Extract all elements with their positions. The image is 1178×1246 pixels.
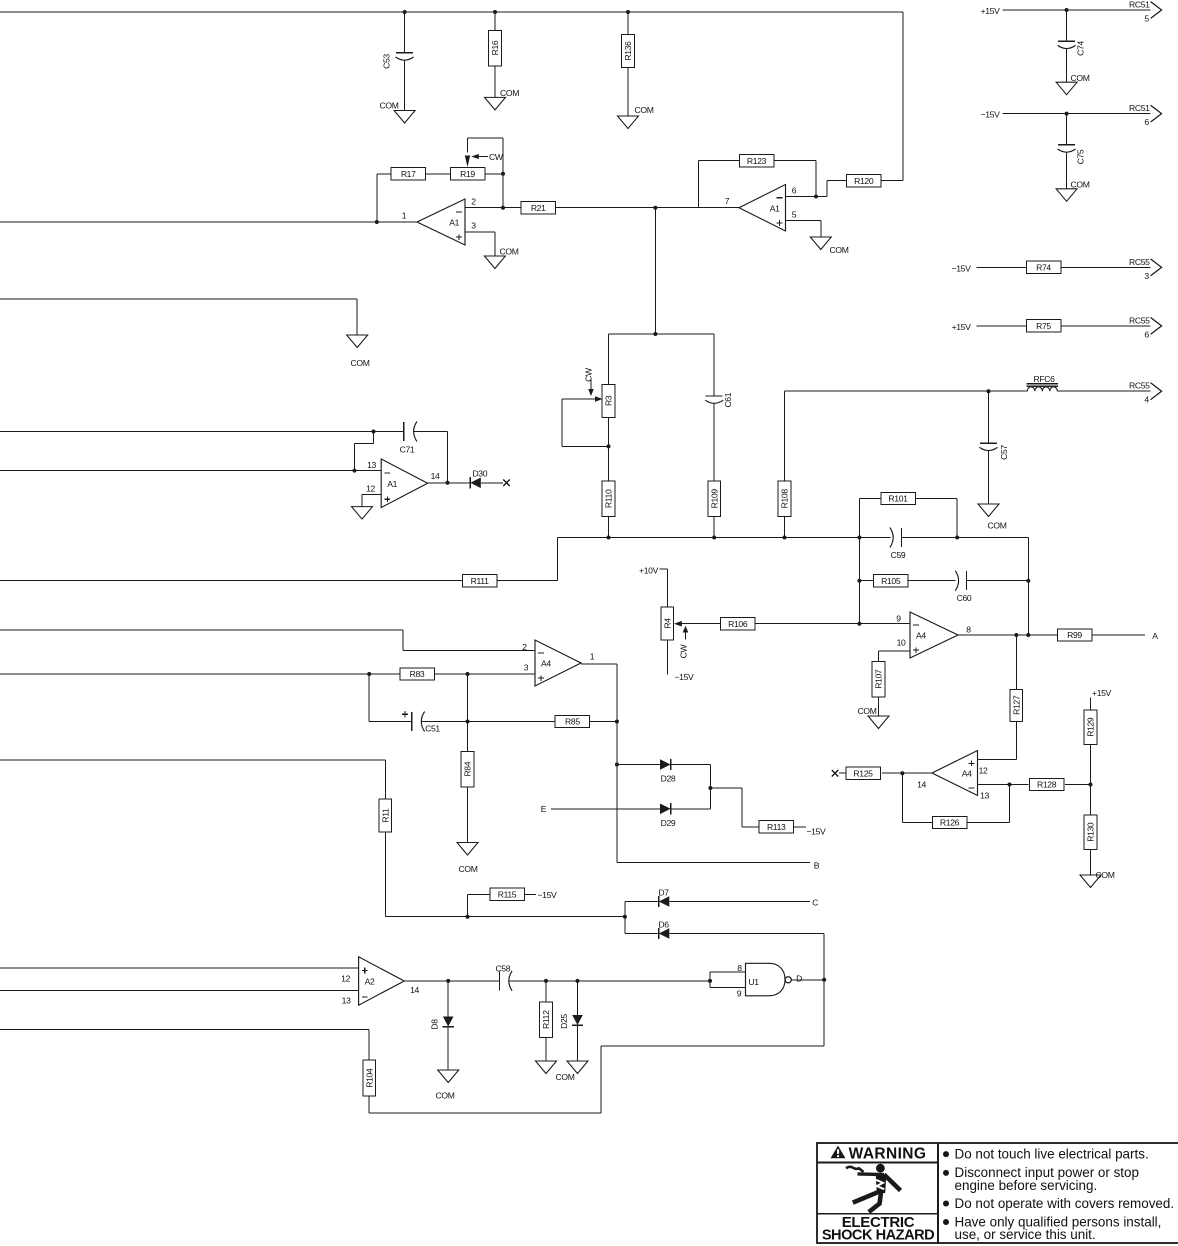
- svg-text:7: 7: [725, 196, 730, 206]
- svg-text:R115: R115: [498, 890, 517, 900]
- svg-text:1: 1: [402, 211, 407, 221]
- svg-text:12: 12: [366, 484, 375, 494]
- svg-text:D6: D6: [658, 919, 669, 929]
- svg-text:D28: D28: [661, 774, 676, 784]
- svg-text:R85: R85: [565, 717, 580, 727]
- svg-text:COM: COM: [380, 101, 399, 111]
- svg-text:C75: C75: [1076, 149, 1086, 164]
- svg-text:E: E: [541, 804, 547, 814]
- svg-text:14: 14: [410, 985, 419, 995]
- svg-text:COM: COM: [436, 1090, 455, 1100]
- svg-text:13: 13: [342, 995, 351, 1005]
- svg-text:WARNING: WARNING: [849, 1146, 927, 1163]
- svg-text:COM: COM: [1071, 73, 1090, 83]
- svg-text:13: 13: [980, 790, 989, 800]
- svg-text:R11: R11: [381, 808, 391, 823]
- svg-text:R128: R128: [1037, 780, 1057, 790]
- svg-text:B: B: [814, 860, 820, 870]
- svg-text:C74: C74: [1076, 41, 1086, 56]
- svg-text:C61: C61: [723, 392, 733, 407]
- svg-text:+15V: +15V: [981, 6, 1001, 16]
- svg-text:R3: R3: [604, 395, 614, 406]
- svg-text:RC55: RC55: [1129, 257, 1150, 267]
- svg-text:COM: COM: [1071, 180, 1090, 190]
- svg-text:R110: R110: [604, 489, 614, 508]
- svg-text:R101: R101: [888, 494, 908, 504]
- svg-text:CW: CW: [679, 643, 689, 658]
- svg-text:+15V: +15V: [952, 322, 972, 332]
- svg-text:use, or service this unit.: use, or service this unit.: [955, 1227, 1096, 1242]
- svg-text:9: 9: [896, 614, 901, 624]
- svg-text:COM: COM: [459, 864, 478, 874]
- svg-text:C59: C59: [891, 550, 906, 560]
- svg-text:R136: R136: [623, 41, 633, 61]
- svg-text:6: 6: [1144, 329, 1149, 339]
- svg-text:C60: C60: [957, 593, 972, 603]
- svg-text:−15V: −15V: [807, 826, 827, 836]
- svg-text:R104: R104: [364, 1068, 374, 1088]
- svg-text:D25: D25: [559, 1014, 569, 1029]
- svg-text:R109: R109: [709, 489, 719, 509]
- svg-text:2: 2: [522, 642, 527, 652]
- svg-text:RC51: RC51: [1129, 103, 1150, 113]
- svg-text:A4: A4: [541, 659, 551, 669]
- svg-text:C58: C58: [495, 963, 510, 973]
- svg-text:COM: COM: [830, 245, 849, 255]
- svg-text:A4: A4: [916, 631, 926, 641]
- svg-text:R105: R105: [881, 576, 901, 586]
- svg-text:D: D: [796, 973, 802, 983]
- svg-text:C57: C57: [999, 445, 1009, 460]
- svg-text:5: 5: [792, 210, 797, 220]
- svg-text:engine before servicing.: engine before servicing.: [955, 1178, 1098, 1193]
- svg-text:R130: R130: [1086, 822, 1096, 842]
- svg-text:COM: COM: [635, 105, 654, 115]
- svg-text:R123: R123: [747, 156, 767, 166]
- svg-text:COM: COM: [351, 358, 370, 368]
- svg-text:3: 3: [471, 221, 476, 231]
- svg-text:9: 9: [737, 988, 742, 998]
- svg-text:8: 8: [737, 963, 742, 973]
- svg-text:Do not operate with covers rem: Do not operate with covers removed.: [955, 1196, 1175, 1211]
- svg-text:CW: CW: [489, 152, 504, 162]
- svg-text:R106: R106: [728, 619, 748, 629]
- svg-text:C53: C53: [382, 54, 392, 69]
- svg-text:RC55: RC55: [1129, 315, 1150, 325]
- svg-text:−15V: −15V: [952, 263, 972, 273]
- svg-text:R99: R99: [1067, 630, 1082, 640]
- svg-text:Do not touch live electrical p: Do not touch live electrical parts.: [955, 1146, 1149, 1161]
- svg-text:A1: A1: [449, 218, 459, 228]
- svg-text:8: 8: [966, 625, 971, 635]
- svg-text:RFC6: RFC6: [1033, 374, 1055, 384]
- svg-text:A1: A1: [770, 203, 780, 213]
- svg-text:D8: D8: [430, 1019, 440, 1030]
- svg-text:D30: D30: [472, 468, 487, 478]
- svg-text:R83: R83: [410, 669, 425, 679]
- svg-text:−15V: −15V: [675, 672, 695, 682]
- svg-text:4: 4: [1144, 395, 1149, 405]
- svg-text:A: A: [1152, 631, 1158, 641]
- svg-text:+10V: +10V: [639, 565, 659, 575]
- svg-text:12: 12: [341, 973, 350, 983]
- svg-text:1: 1: [590, 652, 595, 662]
- svg-text:D29: D29: [661, 818, 676, 828]
- svg-text:SHOCK HAZARD: SHOCK HAZARD: [822, 1228, 934, 1244]
- svg-text:R125: R125: [853, 768, 873, 778]
- svg-text:R111: R111: [471, 576, 489, 586]
- svg-text:10: 10: [897, 638, 906, 648]
- svg-text:R84: R84: [463, 761, 473, 776]
- svg-text:COM: COM: [500, 247, 519, 257]
- svg-text:+15V: +15V: [1092, 688, 1112, 698]
- svg-text:RC51: RC51: [1129, 0, 1150, 10]
- svg-text:2: 2: [471, 197, 476, 207]
- svg-text:A4: A4: [962, 769, 972, 779]
- svg-text:R19: R19: [460, 169, 475, 179]
- svg-text:−15V: −15V: [981, 110, 1001, 120]
- svg-text:C71: C71: [400, 445, 415, 455]
- svg-text:R4: R4: [663, 618, 673, 629]
- svg-text:R75: R75: [1036, 321, 1051, 331]
- svg-text:R108: R108: [780, 489, 790, 509]
- svg-text:U1: U1: [748, 977, 759, 987]
- svg-text:6: 6: [1144, 117, 1149, 127]
- svg-text:RC55: RC55: [1129, 381, 1150, 391]
- svg-text:A2: A2: [365, 977, 375, 987]
- svg-text:14: 14: [917, 779, 926, 789]
- svg-text:14: 14: [431, 471, 440, 481]
- svg-text:R113: R113: [767, 822, 786, 832]
- svg-text:13: 13: [367, 460, 376, 470]
- svg-text:−15V: −15V: [538, 890, 558, 900]
- svg-text:3: 3: [1144, 271, 1149, 281]
- svg-text:R120: R120: [854, 176, 874, 186]
- svg-text:COM: COM: [500, 88, 519, 98]
- svg-text:COM: COM: [858, 706, 877, 716]
- svg-text:R21: R21: [531, 203, 546, 213]
- svg-text:R17: R17: [401, 169, 416, 179]
- svg-text:R129: R129: [1086, 717, 1096, 737]
- svg-text:COM: COM: [556, 1072, 575, 1082]
- svg-text:CW: CW: [584, 367, 594, 382]
- svg-text:R112: R112: [541, 1010, 551, 1029]
- svg-text:5: 5: [1144, 14, 1149, 24]
- svg-text:6: 6: [792, 186, 797, 196]
- svg-text:R126: R126: [940, 818, 960, 828]
- svg-text:D7: D7: [658, 887, 669, 897]
- svg-text:COM: COM: [988, 521, 1007, 531]
- svg-text:C: C: [812, 898, 818, 908]
- svg-text:A1: A1: [387, 479, 397, 489]
- svg-text:COM: COM: [1096, 870, 1115, 880]
- svg-text:3: 3: [524, 663, 529, 673]
- svg-text:R16: R16: [490, 40, 500, 55]
- svg-text:R74: R74: [1036, 263, 1051, 273]
- svg-text:R127: R127: [1012, 695, 1022, 715]
- svg-text:12: 12: [979, 765, 988, 775]
- svg-text:R107: R107: [874, 669, 884, 689]
- svg-text:C51: C51: [425, 724, 440, 734]
